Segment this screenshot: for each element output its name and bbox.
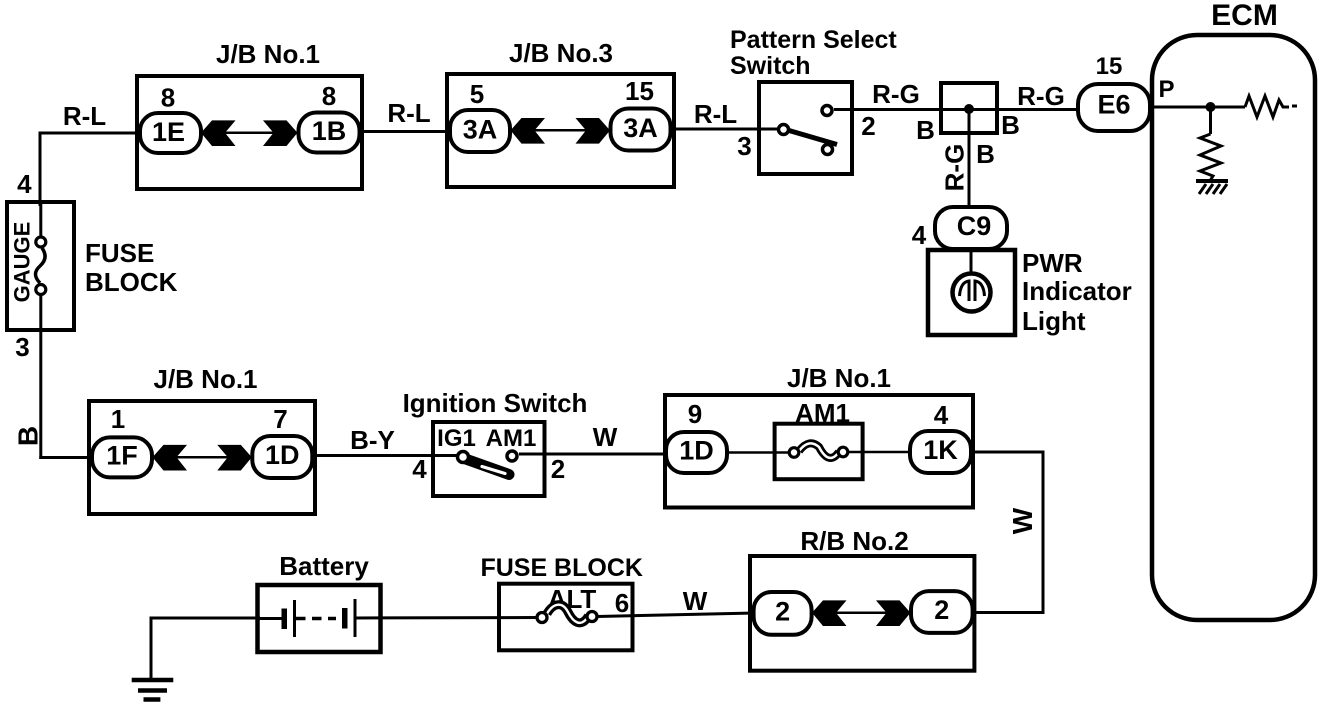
svg-text:7: 7 (273, 404, 287, 434)
svg-text:8: 8 (322, 81, 336, 111)
svg-text:3A: 3A (623, 113, 658, 143)
svg-text:4: 4 (17, 169, 32, 199)
svg-text:R/B No.2: R/B No.2 (800, 526, 908, 556)
svg-text:Battery: Battery (279, 551, 369, 581)
svg-text:W: W (593, 422, 618, 452)
svg-text:15: 15 (1096, 53, 1123, 80)
svg-text:2: 2 (775, 597, 790, 627)
svg-text:J/B No.1: J/B No.1 (216, 39, 320, 69)
svg-text:J/B No.1: J/B No.1 (787, 363, 891, 393)
svg-text:AM1: AM1 (795, 398, 850, 428)
svg-text:B-Y: B-Y (350, 425, 395, 455)
svg-text:ECM: ECM (1211, 0, 1278, 32)
svg-text:IG1: IG1 (437, 425, 476, 452)
svg-text:5: 5 (470, 79, 484, 109)
svg-text:C9: C9 (957, 211, 992, 241)
svg-text:6: 6 (615, 588, 629, 618)
svg-text:B: B (1001, 110, 1020, 140)
svg-text:4: 4 (912, 220, 927, 250)
svg-text:W: W (683, 586, 708, 616)
svg-text:1E: 1E (152, 117, 185, 147)
svg-text:Ignition Switch: Ignition Switch (403, 388, 588, 418)
svg-text:B: B (976, 139, 995, 169)
svg-text:PWR: PWR (1022, 248, 1083, 278)
svg-text:B: B (916, 115, 935, 145)
svg-text:R-L: R-L (694, 99, 737, 129)
svg-text:1B: 1B (312, 116, 347, 146)
svg-text:J/B No.3: J/B No.3 (509, 38, 613, 68)
svg-text:1K: 1K (923, 435, 958, 465)
svg-text:2: 2 (551, 454, 565, 484)
svg-text:GAUGE: GAUGE (10, 222, 35, 303)
svg-text:BLOCK: BLOCK (85, 267, 178, 297)
svg-text:1D: 1D (679, 436, 714, 466)
svg-text:E6: E6 (1097, 90, 1130, 120)
svg-text:Switch: Switch (730, 52, 811, 80)
svg-text:FUSE BLOCK: FUSE BLOCK (480, 554, 643, 582)
svg-text:W: W (1007, 507, 1038, 534)
svg-text:3: 3 (15, 332, 29, 362)
svg-text:Indicator: Indicator (1022, 276, 1132, 306)
svg-text:1: 1 (111, 404, 125, 434)
svg-text:R-L: R-L (63, 101, 106, 131)
svg-text:B: B (13, 426, 44, 446)
svg-text:1F: 1F (106, 441, 138, 471)
svg-text:Pattern Select: Pattern Select (730, 26, 897, 54)
svg-text:9: 9 (688, 399, 702, 429)
svg-text:4: 4 (934, 400, 949, 430)
svg-text:FUSE: FUSE (85, 238, 154, 268)
svg-text:J/B No.1: J/B No.1 (153, 364, 257, 394)
svg-text:R-L: R-L (387, 98, 430, 128)
svg-text:4: 4 (412, 454, 427, 484)
svg-text:R-G: R-G (1017, 81, 1065, 111)
svg-text:R-G: R-G (940, 144, 970, 192)
svg-text:P: P (1158, 76, 1174, 103)
svg-text:R-G: R-G (872, 79, 920, 109)
svg-text:8: 8 (161, 83, 175, 113)
svg-text:15: 15 (625, 76, 654, 106)
svg-text:Light: Light (1022, 306, 1086, 336)
svg-text:AM1: AM1 (486, 425, 537, 452)
svg-text:2: 2 (934, 595, 949, 625)
svg-text:1D: 1D (265, 440, 300, 470)
svg-text:3A: 3A (463, 115, 498, 145)
svg-text:2: 2 (861, 111, 875, 141)
svg-text:3: 3 (737, 131, 751, 161)
